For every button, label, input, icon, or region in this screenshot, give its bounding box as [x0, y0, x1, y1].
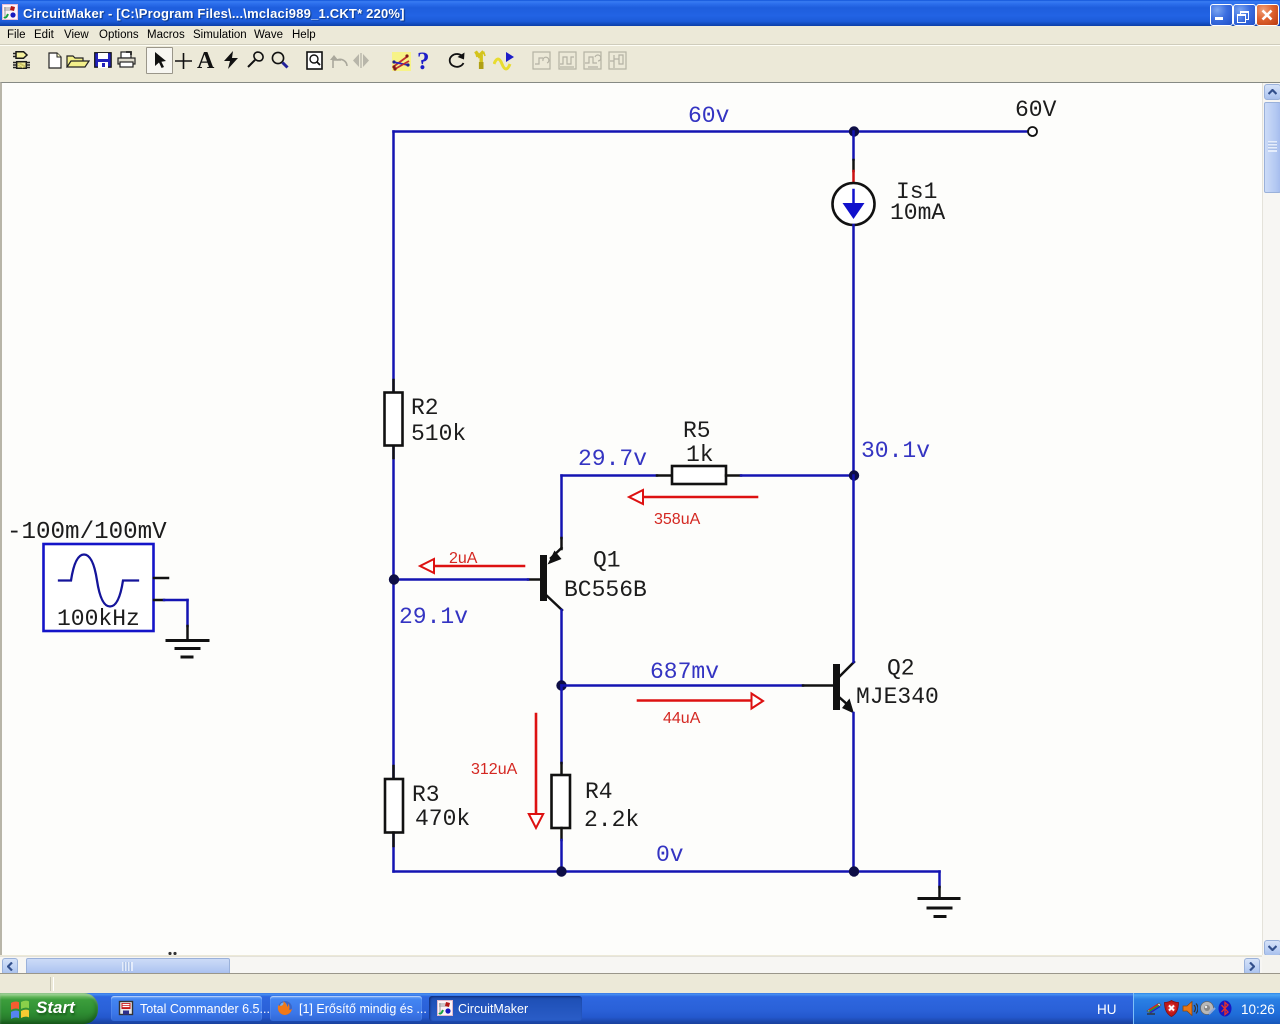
- Start button: [0, 993, 98, 1024]
- tray icon: display: [1146, 1001, 1162, 1016]
- svg-text:30.1v: 30.1v: [861, 438, 930, 464]
- waveform run icon: [493, 50, 515, 72]
- task button: browser: [270, 996, 422, 1021]
- digital/analog sim icon: [390, 51, 413, 72]
- tray icon: shield: [1164, 1000, 1179, 1017]
- svg-text:R4: R4: [585, 779, 613, 805]
- svg-text:60V: 60V: [1015, 97, 1057, 123]
- svg-text:44uA: 44uA: [663, 710, 701, 727]
- task button: Total Commander: [111, 996, 262, 1021]
- svg-text:358uA: 358uA: [654, 511, 701, 528]
- current source Is1: [833, 183, 875, 225]
- ground (V1): [167, 639, 208, 642]
- zoom fit icon: [306, 51, 326, 71]
- resistor R5: [657, 474, 672, 477]
- svg-text:687mv: 687mv: [650, 659, 719, 685]
- wire: V1 minus pin to ground: [154, 599, 164, 602]
- task button: CircuitMaker (active): [429, 996, 582, 1021]
- stray dots at canvas bottom: [168, 952, 171, 955]
- band between toolbar and canvas: [0, 76, 1280, 82]
- plus tool: [174, 52, 193, 70]
- scope icon 2 (disabled): [558, 51, 577, 70]
- scope icon 1 (disabled): [532, 51, 551, 70]
- wire: bottom 0v rail: [394, 870, 940, 873]
- svg-text:MJE340: MJE340: [856, 684, 939, 710]
- browse parts icon: [13, 51, 31, 69]
- signal source V1: [44, 544, 154, 631]
- down arrow button: [1264, 940, 1280, 956]
- svg-text:BC556B: BC556B: [564, 577, 647, 603]
- node E: R4 / bottom rail: [556, 866, 566, 876]
- tray icon: speaker orange: [1182, 1001, 1198, 1016]
- svg-text:510k: 510k: [411, 421, 466, 447]
- select arrow (active button): [146, 47, 173, 74]
- svg-text:-100m/100mV: -100m/100mV: [7, 519, 167, 546]
- thumb: [1264, 102, 1280, 193]
- current arrow 2uA: [434, 565, 524, 568]
- svg-text:R5: R5: [683, 418, 711, 444]
- tray: [1133, 993, 1280, 1024]
- save: [94, 52, 112, 68]
- svg-text:Q2: Q2: [887, 656, 915, 682]
- svg-text:R3: R3: [412, 782, 440, 808]
- rotate (disabled): [329, 51, 350, 70]
- wire: Q1 emitter drop from 29.7v corner: [560, 476, 563, 539]
- transistor Q2 (NPN MJE340): [833, 664, 840, 710]
- ground (right): [919, 897, 959, 900]
- new: [47, 52, 63, 69]
- wire: Q1 collector down to node: [560, 610, 563, 686]
- wire: node D to Q2 base: [562, 684, 804, 687]
- svg-text:100kHz: 100kHz: [57, 606, 140, 632]
- svg-text:0v: 0v: [656, 842, 684, 868]
- app icon: [2, 4, 18, 20]
- svg-text:Q1: Q1: [593, 548, 621, 574]
- help ?: [417, 48, 433, 70]
- zoom tool: [270, 50, 290, 70]
- scope icon 3 (disabled): [583, 51, 602, 70]
- h thumb: [26, 958, 230, 975]
- current arrow 358uA: [643, 496, 757, 499]
- wire: left rail from top wire down to bottom wire: [392, 132, 395, 872]
- wire: Q1 base to left rail: [395, 578, 529, 581]
- print: [117, 51, 137, 68]
- right arrow button: [1244, 958, 1260, 975]
- tray icon: bluetooth: [1218, 1000, 1232, 1017]
- svg-text:1k: 1k: [686, 442, 714, 468]
- svg-text:312uA: 312uA: [471, 761, 518, 778]
- node A: junction top wire / Is1: [849, 126, 859, 136]
- reset icon: [447, 51, 467, 70]
- wire: right rail Is1 to R5 node: [852, 225, 855, 476]
- svg-text:2uA: 2uA: [449, 550, 478, 567]
- up arrow button: [1264, 84, 1280, 100]
- svg-text:2.2k: 2.2k: [584, 807, 639, 833]
- wire: V1 plus pin: [154, 577, 168, 580]
- terminal 60V: [1028, 127, 1037, 136]
- transistor Q1 (PNP BC556B): [560, 538, 563, 549]
- tray icon: volume: [1200, 1001, 1216, 1016]
- wire tool (lightning): [222, 51, 241, 70]
- scrollbar corner: [1262, 955, 1280, 973]
- node D: collector/base/R4 junction: [556, 680, 566, 690]
- wire: Q2 emitter to bottom rail: [852, 713, 855, 872]
- svg-text:470k: 470k: [415, 806, 470, 832]
- wire: drop to ground: [938, 872, 941, 888]
- scope icon 4 (disabled): [608, 51, 627, 70]
- svg-text:R2: R2: [411, 395, 439, 421]
- open: [66, 54, 90, 68]
- left arrow button: [2, 958, 18, 975]
- node B: right rail / R5 junction: [849, 470, 859, 480]
- resistor R4: [560, 686, 563, 764]
- resistor R2: [392, 380, 395, 392]
- text tool: [197, 48, 217, 70]
- wire: R5 to right rail: [741, 474, 854, 477]
- resistor R3: [392, 766, 395, 779]
- svg-text:29.7v: 29.7v: [578, 446, 647, 472]
- wire: Is1 top pin (blue/black/red): [852, 132, 855, 160]
- HU language: [1097, 1002, 1117, 1017]
- probe tool: [246, 51, 265, 70]
- current arrow 44uA: [638, 699, 751, 702]
- canvas frame line over scrollbar strip: [1262, 82, 1280, 83]
- mirror (disabled): [352, 53, 370, 68]
- svg-text:10mA: 10mA: [890, 200, 945, 226]
- wire: 29.7v horizontal run to R5: [562, 474, 658, 477]
- window buttons: [1210, 4, 1233, 26]
- wire: right rail node B to Q2 collector: [852, 476, 855, 663]
- node C: left rail / base junction: [389, 574, 399, 584]
- wrench (run tool): [474, 50, 490, 72]
- current arrow 312uA: [535, 714, 538, 813]
- svg-text:60v: 60v: [688, 103, 730, 129]
- node F: Q2 emitter / bottom rail: [849, 866, 859, 876]
- windows flag: [10, 999, 31, 1020]
- clock: [1241, 1002, 1275, 1017]
- wire: top 60v horizontal wire: [394, 130, 1029, 133]
- svg-text:29.1v: 29.1v: [399, 604, 468, 630]
